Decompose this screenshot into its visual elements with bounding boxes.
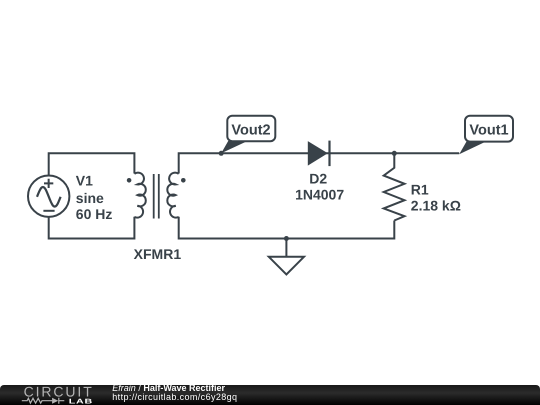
flag tail Vout1	[459, 142, 486, 155]
footer text	[112, 384, 237, 402]
footer bar	[0, 385, 540, 405]
svg-text:sine: sine	[76, 190, 104, 206]
transformer primary polarity dot	[127, 178, 132, 183]
node dot Vout2	[219, 151, 224, 156]
wire: V1 loop bottom	[49, 217, 135, 239]
V1 minus sign	[43, 210, 54, 212]
V1 plus sign	[44, 179, 53, 188]
svg-text:2.18 kΩ: 2.18 kΩ	[411, 198, 461, 214]
svg-text:R1: R1	[411, 182, 429, 198]
svg-text:60 Hz: 60 Hz	[76, 206, 113, 222]
wire: secondary loop bottom	[179, 217, 395, 239]
transformer XFMR1 primary winding	[134, 173, 145, 218]
node dot ground junction	[284, 236, 289, 241]
wire: secondary loop top	[179, 153, 460, 173]
diode D2 cathode bar	[328, 141, 330, 167]
svg-text:D2: D2	[309, 171, 327, 187]
transformer secondary polarity dot	[181, 178, 186, 183]
svg-text:Vout1: Vout1	[469, 123, 508, 139]
svg-text:V1: V1	[76, 173, 93, 189]
flag box Vout1	[465, 116, 513, 142]
voltage source V1 circle	[28, 176, 69, 217]
wire: V1 loop top	[49, 153, 135, 175]
transformer core lines	[154, 174, 159, 219]
CircuitLab logo	[20, 385, 110, 405]
svg-text:Vout2: Vout2	[231, 123, 270, 139]
svg-text:LAB: LAB	[69, 398, 93, 405]
flag tail Vout2	[221, 141, 247, 153]
transformer XFMR1 secondary winding	[167, 173, 178, 218]
node dot R1 top junction	[392, 151, 397, 156]
diode D2 triangle	[308, 141, 328, 166]
flag box Vout2	[227, 116, 275, 141]
svg-text:XFMR1: XFMR1	[134, 246, 182, 262]
V1 sine symbol	[37, 187, 61, 207]
svg-text:1N4007: 1N4007	[295, 187, 344, 203]
svg-text:CIRCUIT: CIRCUIT	[24, 385, 94, 400]
resistor R1 zigzag	[384, 153, 405, 220]
ground symbol	[269, 239, 304, 275]
